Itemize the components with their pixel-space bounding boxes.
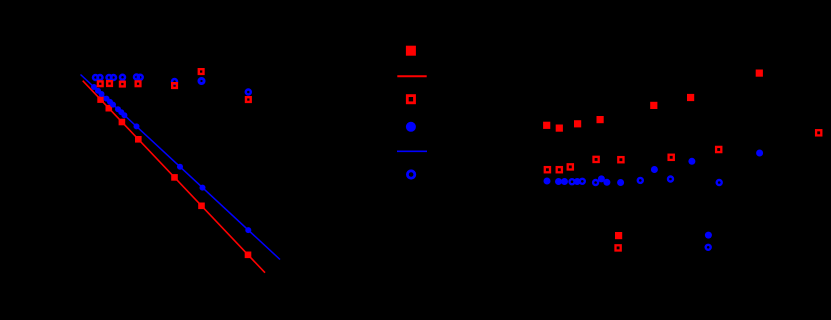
blue series line (left panel, descending) bbox=[81, 75, 281, 260]
blue nearly-filled circle at t cluster (left panel top) bbox=[199, 78, 204, 83]
red filled square scatter (right panel) bbox=[543, 70, 763, 240]
blue filled circle markers on blue line bbox=[91, 84, 251, 233]
red open-square flat series (left panel top) bbox=[98, 69, 251, 102]
blue filled circle scatter (right panel) bbox=[544, 150, 764, 239]
legend: blue line entry bbox=[397, 150, 427, 152]
red open square scatter (right panel) bbox=[545, 130, 822, 250]
legend: blue open circle entry bbox=[407, 171, 414, 178]
blue open circle scatter (right panel) bbox=[570, 177, 722, 250]
legend: red filled square entry bbox=[406, 46, 416, 56]
legend: blue filled circle entry bbox=[406, 122, 416, 132]
red filled square markers on red line bbox=[97, 96, 251, 258]
blue open-circle flat series (left panel top) bbox=[93, 75, 251, 95]
red series line (left panel, descending) bbox=[83, 81, 265, 273]
legend: red open square entry bbox=[407, 96, 414, 103]
legend: red line entry bbox=[397, 75, 426, 77]
